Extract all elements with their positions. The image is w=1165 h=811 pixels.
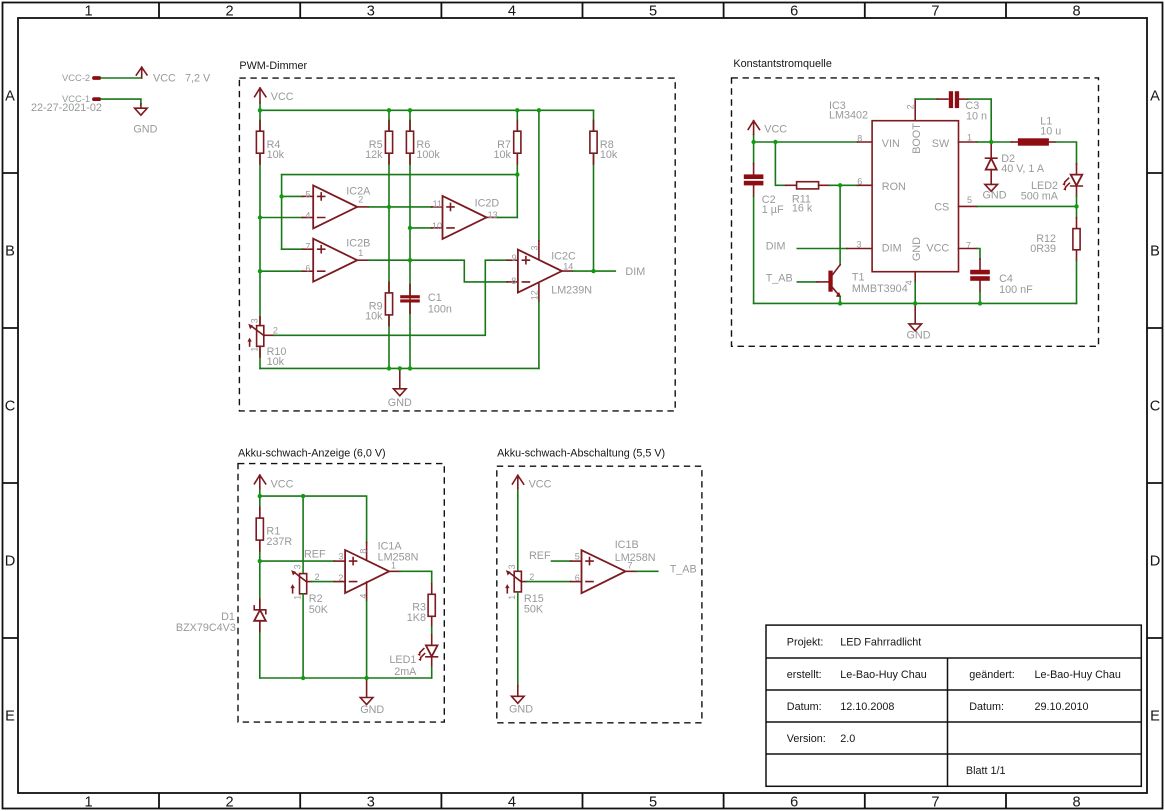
- svg-text:100 nF: 100 nF: [999, 284, 1033, 296]
- power symbol VCC (Anzeige): [254, 475, 293, 496]
- op-amp IC1B LM258N: [575, 539, 656, 593]
- svg-text:C4: C4: [999, 273, 1013, 285]
- svg-text:SW: SW: [932, 138, 950, 150]
- wire VCC pin 7 to C4: [959, 249, 981, 304]
- wire R3 to LED1: [431, 616, 433, 645]
- svg-text:4: 4: [305, 211, 310, 221]
- wire IC2C power pin 12: [538, 282, 540, 369]
- wire IC1A out to R3: [389, 571, 432, 594]
- svg-text:2mA: 2mA: [394, 666, 417, 678]
- svg-text:6: 6: [857, 177, 862, 187]
- wire R11 node to T1 collector: [839, 185, 841, 264]
- wire VCC rail: [260, 109, 594, 111]
- wire IC1B out T_AB: [626, 570, 658, 572]
- wire R15 wiper to IC1B -in: [521, 581, 581, 583]
- svg-text:Le-Bao-Huy Chau: Le-Bao-Huy Chau: [1035, 669, 1121, 681]
- LED LED2: [1021, 175, 1083, 207]
- ground symbol GND (Anzeige): [360, 678, 384, 716]
- wire R11 to RON pin 6: [819, 184, 873, 186]
- svg-text:8: 8: [1072, 3, 1080, 19]
- svg-text:2.0: 2.0: [840, 733, 855, 745]
- wire feedback row: [282, 174, 518, 176]
- svg-text:DIM: DIM: [766, 240, 786, 252]
- capacitor C1: [400, 284, 452, 315]
- svg-text:Konstantstromquelle: Konstantstromquelle: [733, 58, 831, 70]
- wire IC2D out to R7: [487, 216, 518, 218]
- svg-text:1: 1: [358, 248, 363, 258]
- svg-text:10k: 10k: [493, 149, 511, 161]
- resistor R7: [493, 120, 520, 164]
- wire R8 column: [593, 110, 595, 271]
- wire VCC branch to R11: [775, 142, 796, 185]
- svg-text:237R: 237R: [266, 536, 292, 548]
- svg-text:VCC: VCC: [529, 479, 552, 491]
- svg-text:LM239N: LM239N: [551, 284, 592, 296]
- svg-text:500 mA: 500 mA: [1021, 191, 1059, 203]
- svg-text:4: 4: [904, 280, 914, 285]
- wire C2 column: [753, 142, 755, 303]
- junction nodes KSQ: [751, 140, 1078, 306]
- title block: [766, 625, 1141, 786]
- svg-text:Datum:: Datum:: [969, 701, 1004, 713]
- svg-text:3: 3: [338, 551, 343, 561]
- wire T_AB to T1 base: [797, 281, 828, 283]
- svg-text:40 V, 1 A: 40 V, 1 A: [1001, 163, 1045, 175]
- svg-text:D: D: [5, 554, 16, 570]
- power symbol VCC (PWM): [255, 88, 294, 110]
- svg-text:10k: 10k: [600, 149, 618, 161]
- diode D2: [986, 142, 1045, 184]
- wire R1/D1 column: [259, 496, 261, 678]
- svg-text:3: 3: [856, 239, 861, 249]
- potentiometer R10: [247, 317, 286, 368]
- resistor R5: [365, 120, 392, 164]
- svg-text:2: 2: [226, 3, 234, 19]
- svg-text:3: 3: [292, 564, 302, 569]
- svg-text:2: 2: [315, 572, 320, 582]
- svg-text:3: 3: [530, 245, 540, 250]
- svg-text:3: 3: [249, 318, 259, 323]
- svg-text:3: 3: [367, 3, 375, 19]
- svg-text:100n: 100n: [428, 303, 452, 315]
- svg-text:E: E: [1150, 709, 1160, 725]
- svg-text:B: B: [1150, 244, 1160, 260]
- connector J1 supply area: [31, 67, 211, 135]
- svg-text:PWM-Dimmer: PWM-Dimmer: [239, 60, 307, 72]
- wire IC2C out DIM: [562, 270, 615, 272]
- svg-text:geändert:: geändert:: [969, 669, 1015, 681]
- svg-text:1 µF: 1 µF: [762, 204, 784, 216]
- svg-text:Blatt 1/1: Blatt 1/1: [966, 765, 1006, 777]
- svg-text:REF: REF: [529, 550, 551, 562]
- svg-text:VCC: VCC: [271, 478, 294, 490]
- svg-text:LM258N: LM258N: [378, 551, 419, 563]
- svg-text:1: 1: [84, 794, 92, 810]
- svg-text:1: 1: [967, 132, 972, 142]
- svg-text:GND: GND: [133, 123, 157, 135]
- resistor R6: [406, 120, 440, 164]
- resistor R3: [407, 594, 436, 624]
- svg-text:VIN: VIN: [882, 138, 900, 150]
- block box Konstantstromquelle: [732, 78, 1099, 346]
- svg-text:3: 3: [367, 794, 375, 810]
- wire DIM to pin 3: [797, 248, 872, 250]
- potentiometer R15: [505, 564, 544, 615]
- wire R2 bottom to ground rail: [302, 594, 304, 678]
- wire VCC-2 to VCC: [101, 77, 142, 79]
- svg-text:3: 3: [507, 564, 517, 569]
- power symbol VCC (KSQ): [748, 121, 787, 142]
- transistor T1 MMBT3904: [828, 265, 907, 304]
- svg-text:T1: T1: [852, 271, 865, 283]
- svg-text:BZX79C4V3: BZX79C4V3: [176, 622, 236, 634]
- svg-text:13: 13: [488, 210, 498, 220]
- svg-text:12: 12: [530, 290, 540, 300]
- wire CS pin 5 to LED2/R12: [959, 205, 1077, 207]
- svg-text:DIM: DIM: [625, 266, 645, 278]
- svg-text:6: 6: [790, 3, 798, 19]
- svg-text:BOOT: BOOT: [911, 123, 923, 154]
- resistor R9: [365, 282, 392, 326]
- wire R2 wiper to IC1A -in: [307, 581, 345, 583]
- op-amp IC2B: [305, 238, 370, 282]
- wire R15 bottom to GND: [517, 592, 519, 696]
- svg-text:CS: CS: [934, 201, 949, 213]
- svg-text:6: 6: [790, 794, 798, 810]
- svg-text:A: A: [1150, 89, 1160, 105]
- wire feedback column: [281, 175, 283, 250]
- resistor R12: [1030, 206, 1080, 260]
- wire R7 column: [516, 110, 518, 217]
- svg-text:GND: GND: [509, 703, 533, 715]
- svg-text:5: 5: [649, 3, 657, 19]
- resistor R1: [256, 507, 292, 551]
- svg-text:E: E: [5, 709, 15, 725]
- svg-text:2: 2: [906, 104, 916, 109]
- svg-text:6: 6: [305, 264, 310, 274]
- wire BOOT pin 2 to C3: [915, 99, 948, 121]
- svg-text:LM258N: LM258N: [615, 552, 656, 564]
- junction nodes Anzeige: [258, 494, 369, 680]
- wire GND pin 4: [914, 272, 916, 304]
- wire REF to IC1B +in: [552, 560, 582, 562]
- wire SW pin 1: [959, 141, 992, 143]
- svg-text:IC2D: IC2D: [475, 197, 500, 209]
- capacitor C3: [949, 91, 987, 122]
- wire IC2A out to IC2D +in: [357, 206, 442, 208]
- svg-text:10 n: 10 n: [966, 111, 987, 123]
- svg-text:VCC: VCC: [153, 73, 176, 85]
- svg-text:8: 8: [1072, 794, 1080, 810]
- op-amp IC2D: [432, 196, 499, 239]
- svg-text:GND: GND: [388, 397, 412, 409]
- wire REF to IC1A +in: [260, 560, 345, 562]
- svg-text:1: 1: [249, 347, 259, 352]
- svg-text:C: C: [5, 399, 16, 415]
- svg-text:VCC-2: VCC-2: [62, 72, 90, 83]
- wire L1 to LED2: [1049, 142, 1077, 175]
- svg-text:4: 4: [508, 3, 516, 19]
- svg-text:10 u: 10 u: [1040, 126, 1061, 138]
- wire IC2B out to IC2C -in: [357, 260, 518, 282]
- wire VCC to R2: [302, 496, 304, 573]
- svg-text:Version:: Version:: [787, 733, 826, 745]
- wire ground rail (Anzeige): [260, 677, 432, 679]
- block box PWM-Dimmer: [239, 78, 675, 411]
- svg-text:MMBT3904: MMBT3904: [852, 283, 908, 295]
- wire ground rail (KSQ): [754, 302, 1077, 304]
- wire IC2C power pin 3: [538, 110, 540, 261]
- ground symbol GND (PWM): [388, 368, 412, 409]
- wire VCC to R15: [517, 496, 519, 571]
- wire ground rail: [260, 367, 539, 369]
- svg-text:RON: RON: [882, 181, 906, 193]
- svg-text:1: 1: [391, 560, 396, 570]
- wire VCC to VIN pin 8: [754, 141, 873, 143]
- pin number 2 (rotated): [906, 104, 916, 109]
- svg-text:16 k: 16 k: [792, 202, 813, 214]
- svg-text:2: 2: [358, 195, 363, 205]
- svg-text:1: 1: [507, 595, 517, 600]
- wire IC2A -in: [260, 217, 313, 219]
- svg-text:DIM: DIM: [882, 243, 902, 255]
- wire IC1A power pin 4: [366, 582, 368, 678]
- svg-text:GND: GND: [360, 704, 384, 716]
- pin name GND (rotated): [911, 237, 923, 261]
- svg-text:6: 6: [575, 573, 580, 583]
- op-amp IC1A LM258N: [338, 540, 418, 598]
- svg-text:11: 11: [433, 199, 442, 209]
- capacitor C4: [970, 270, 1033, 296]
- wire SW node to L1: [991, 141, 1018, 143]
- svg-text:GND: GND: [907, 329, 931, 341]
- svg-text:7: 7: [931, 3, 939, 19]
- svg-text:Datum:: Datum:: [787, 701, 822, 713]
- wire C3 to SW node: [957, 99, 991, 142]
- svg-text:2: 2: [529, 572, 534, 582]
- svg-text:5: 5: [967, 195, 972, 205]
- svg-text:Projekt:: Projekt:: [787, 637, 824, 649]
- svg-text:100k: 100k: [416, 149, 440, 161]
- svg-text:1: 1: [84, 3, 92, 19]
- svg-text:Le-Bao-Huy Chau: Le-Bao-Huy Chau: [840, 669, 926, 681]
- svg-text:4: 4: [508, 794, 516, 810]
- svg-text:C: C: [1150, 399, 1161, 415]
- power symbol VCC: [136, 67, 147, 78]
- svg-text:8: 8: [358, 549, 368, 554]
- block box Akku-schwach-Anzeige: [238, 464, 444, 722]
- svg-text:0R39: 0R39: [1030, 243, 1056, 255]
- svg-text:Akku-schwach-Anzeige (6,0 V): Akku-schwach-Anzeige (6,0 V): [238, 448, 386, 460]
- resistor R4: [256, 120, 284, 164]
- svg-text:A: A: [5, 89, 15, 105]
- svg-text:5: 5: [305, 190, 310, 200]
- svg-text:5: 5: [575, 551, 580, 561]
- svg-text:VCC: VCC: [764, 123, 787, 135]
- wire R6/C1 column: [409, 110, 411, 368]
- svg-text:14: 14: [563, 261, 573, 271]
- svg-text:7: 7: [628, 561, 633, 571]
- svg-text:7: 7: [305, 242, 310, 252]
- op-amp IC2C LM239N: [511, 245, 592, 300]
- power symbol VCC (Abschaltung): [512, 475, 551, 496]
- wire IC2B -in: [260, 270, 313, 272]
- svg-text:2: 2: [273, 326, 278, 336]
- svg-text:LED Fahrradlicht: LED Fahrradlicht: [840, 637, 921, 649]
- svg-text:50K: 50K: [309, 604, 329, 616]
- svg-text:10k: 10k: [267, 149, 285, 161]
- svg-text:GND: GND: [983, 190, 1007, 202]
- capacitor C2: [744, 174, 784, 215]
- svg-text:1: 1: [292, 595, 302, 600]
- ground symbol GND: [135, 108, 148, 115]
- svg-text:LED1: LED1: [389, 654, 416, 666]
- wire R5/R9 column: [388, 110, 390, 368]
- ground symbol GND (KSQ): [907, 303, 931, 341]
- svg-text:12.10.2008: 12.10.2008: [840, 701, 894, 713]
- ground symbol GND (Abschaltung): [509, 696, 533, 715]
- inductor L1: [1018, 116, 1061, 146]
- wire IC2B +in: [282, 248, 314, 250]
- svg-text:B: B: [5, 244, 15, 260]
- diode D1 zener BZX79C4V3: [176, 599, 266, 634]
- svg-text:7,2 V: 7,2 V: [185, 73, 211, 85]
- svg-text:22-27-2021-02: 22-27-2021-02: [31, 102, 102, 114]
- junction nodes PWM: [258, 108, 596, 370]
- svg-text:29.10.2010: 29.10.2010: [1035, 701, 1089, 713]
- wire VCC-1 to GND: [101, 99, 141, 104]
- svg-text:C1: C1: [428, 292, 442, 304]
- svg-text:2: 2: [226, 794, 234, 810]
- svg-text:D: D: [1150, 554, 1161, 570]
- block box Akku-schwach-Abschaltung: [497, 466, 702, 723]
- LED LED1: [389, 645, 437, 678]
- wire R4 column: [259, 110, 261, 368]
- connector pin VCC-2: [92, 76, 101, 80]
- wire R10 wiper to IC2C +in: [264, 260, 518, 335]
- svg-text:7: 7: [931, 794, 939, 810]
- svg-text:12k: 12k: [365, 149, 383, 161]
- svg-text:REF: REF: [304, 548, 326, 560]
- svg-text:9: 9: [512, 253, 517, 263]
- wire R12 to ground rail: [1076, 261, 1078, 304]
- svg-text:10k: 10k: [365, 311, 383, 323]
- pin number 4 (rotated): [904, 280, 914, 285]
- svg-text:VCC: VCC: [926, 243, 949, 255]
- pin name BOOT (rotated): [911, 123, 923, 154]
- potentiometer R2: [290, 564, 328, 616]
- svg-text:5: 5: [649, 794, 657, 810]
- svg-text:8: 8: [857, 133, 862, 143]
- op-amp IC2A: [305, 185, 371, 228]
- ground symbol GND (D2): [983, 184, 1007, 201]
- svg-text:1K8: 1K8: [407, 612, 426, 624]
- resistor R11: [792, 182, 819, 215]
- wire IC2A +in: [282, 195, 314, 197]
- wire VCC rail (Anzeige): [260, 496, 367, 561]
- wire IC2D -in: [410, 227, 443, 229]
- svg-text:10: 10: [432, 221, 442, 231]
- svg-text:GND: GND: [911, 237, 923, 261]
- svg-text:LM3402: LM3402: [829, 110, 868, 122]
- svg-text:8: 8: [511, 276, 516, 286]
- svg-text:erstellt:: erstellt:: [787, 669, 822, 681]
- svg-text:2: 2: [338, 573, 343, 583]
- svg-text:VCC: VCC: [271, 91, 294, 103]
- svg-text:T_AB: T_AB: [670, 564, 697, 576]
- connector pin VCC-1: [92, 97, 101, 101]
- resistor R8: [590, 120, 618, 164]
- svg-text:IC1B: IC1B: [615, 539, 639, 551]
- svg-text:10k: 10k: [267, 356, 285, 368]
- IC U IC3 LM3402 body: [829, 100, 959, 272]
- svg-text:Akku-schwach-Abschaltung (5,5: Akku-schwach-Abschaltung (5,5 V): [497, 448, 665, 460]
- svg-text:50K: 50K: [524, 604, 544, 616]
- svg-text:T_AB: T_AB: [766, 273, 793, 285]
